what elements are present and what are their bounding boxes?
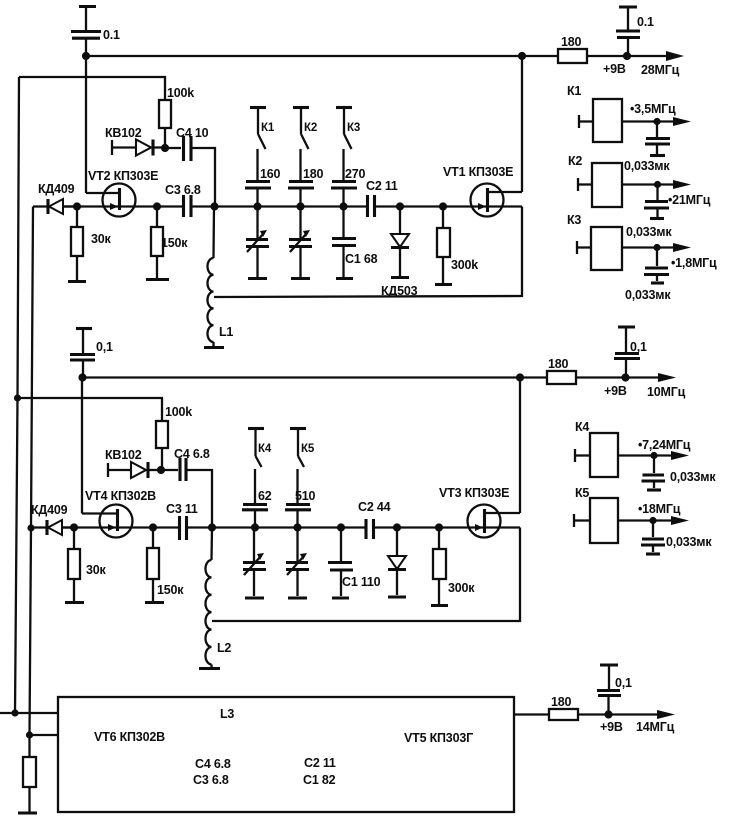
capacitor 0.1 (rail2) [614, 354, 640, 378]
node 30k top (osc2) [70, 523, 78, 531]
svg-text:К5: К5 [301, 443, 315, 455]
svg-text:150к: 150к [157, 583, 184, 597]
svg-text:•18МГц: •18МГц [638, 502, 681, 516]
svg-text:150к: 150к [161, 236, 188, 250]
relay block K4 [575, 433, 683, 477]
svg-text:•21МГц: •21МГц [668, 193, 711, 207]
node tank col2 (osc2) [293, 523, 301, 531]
ground under trimmer 2 [291, 277, 310, 280]
ground under diode (osc2) [388, 595, 406, 598]
node rail2 decoupling [621, 373, 629, 381]
trimmer capacitor 2 (osc1) [289, 207, 312, 278]
svg-text:L1: L1 [219, 325, 233, 339]
node KD503 top [396, 202, 404, 210]
svg-text:10МГц: 10МГц [647, 385, 686, 399]
node 300k top [439, 202, 447, 210]
wire box output [514, 713, 549, 715]
arrow K4 output [671, 451, 689, 460]
capacitor 0.1 (rail1) [616, 31, 640, 56]
inductor L2 [206, 560, 212, 664]
capacitor C4 10 (osc1) [165, 136, 215, 207]
resistor R 100k (osc1) [159, 100, 171, 148]
svg-text:0,033мк: 0,033мк [624, 159, 670, 173]
ground under K3 cap [651, 281, 664, 284]
svg-text:•3,5МГц: •3,5МГц [630, 102, 676, 116]
svg-text:КД409: КД409 [38, 182, 75, 196]
svg-text:0,033мк: 0,033мк [670, 470, 716, 484]
diode KD409 (osc1) [33, 199, 77, 214]
resistor R 30k (osc1) [71, 207, 83, 281]
box U3 outline [58, 697, 514, 812]
resistor R 100k (osc2) [156, 421, 168, 470]
wire bus A (gate-bias feed, left vertical) [15, 77, 19, 713]
svg-text:0,1: 0,1 [96, 340, 113, 354]
capacitor 160 (osc1) [245, 182, 271, 207]
svg-text:L3: L3 [220, 707, 234, 721]
ground under trimmer 1 (osc2) [245, 596, 264, 599]
svg-text:К2: К2 [304, 122, 317, 134]
svg-text:С4 6.8: С4 6.8 [174, 447, 210, 461]
wire L1 tap to VT1 source [214, 207, 522, 298]
capacitor 62 (osc2) [242, 505, 268, 528]
node A-bottom junction [11, 709, 18, 716]
trimmer capacitor 2 (osc2) [286, 528, 309, 597]
trimmer capacitor 1 (osc2) [243, 528, 266, 597]
node 100k/KB102/C4 [161, 144, 169, 152]
svg-text:С2 44: С2 44 [358, 500, 391, 514]
capacitor C2 44 (osc2) [366, 519, 520, 539]
wire L2 tap to VT3 source [212, 528, 520, 622]
svg-text:0,1: 0,1 [615, 676, 632, 690]
ground bar above C-dec2 [76, 329, 92, 354]
svg-text:VT2 КП303Е: VT2 КП303Е [88, 169, 158, 183]
transistor VT3 KP303E [468, 378, 521, 538]
capacitor 270 (osc1) [331, 182, 357, 207]
svg-text:160: 160 [260, 167, 281, 181]
node B-osc2 junction [27, 524, 34, 531]
svg-text:28МГц: 28МГц [641, 63, 680, 77]
wire feed1 horizontal [19, 77, 165, 100]
svg-text:100k: 100k [165, 405, 192, 419]
svg-text:К4: К4 [575, 420, 589, 434]
node K2 output [654, 181, 661, 188]
ground under 300k [435, 283, 452, 286]
svg-text:С3 6.8: С3 6.8 [165, 183, 201, 197]
relay block K1 [579, 99, 685, 142]
relay block K2 [578, 163, 685, 207]
node K3 output [653, 244, 660, 251]
node C3/C4 junction [210, 202, 218, 210]
svg-text:180: 180 [548, 357, 569, 371]
node rail1 VT1 drain [518, 52, 526, 60]
node diode top (osc2) [393, 523, 401, 531]
node 100k/KB102/C4 (osc2) [157, 466, 165, 474]
svg-text:С4 6.8: С4 6.8 [195, 757, 231, 771]
svg-text:С4 10: С4 10 [176, 126, 209, 140]
svg-text:0,1: 0,1 [630, 340, 647, 354]
ground under K2 cap [650, 217, 664, 220]
diode KD503 (osc1) [391, 207, 409, 277]
node rail2 left [78, 373, 86, 381]
node rail1 left [82, 52, 90, 60]
ground bar above C-dec2r [618, 327, 635, 352]
svg-text:К5: К5 [575, 486, 589, 500]
svg-text:62: 62 [258, 489, 272, 503]
node tank col1 (osc2) [251, 523, 259, 531]
svg-text:С2 11: С2 11 [366, 179, 398, 193]
svg-text:30к: 30к [91, 232, 112, 246]
transistor VT4 KP302V [82, 378, 133, 538]
svg-text:VT1 КП303Е: VT1 КП303Е [443, 165, 513, 179]
diode KD409 (osc2) [31, 520, 74, 535]
wire L1 top lead [212, 207, 215, 259]
svg-text:С1 68: С1 68 [345, 252, 378, 266]
node 150k top [153, 202, 161, 210]
capacitor C1 68 (osc1) [332, 207, 356, 278]
relay block K5 [574, 498, 683, 543]
resistor R 180 (rail3) [549, 709, 669, 720]
svg-text:С1 110: С1 110 [342, 575, 381, 589]
svg-text:VT4 КП302В: VT4 КП302В [85, 489, 156, 503]
switch K4 contact (osc2) [248, 429, 264, 504]
capacitor 0.033 (K1) [645, 122, 670, 155]
capacitor C1 110 (osc2) [328, 528, 353, 597]
resistor R 180 (rail2) [547, 371, 670, 384]
resistor R 300k (osc2) [433, 528, 446, 605]
svg-text:100k: 100k [167, 86, 194, 100]
node 30k top [73, 202, 81, 210]
svg-text:КВ102: КВ102 [105, 448, 142, 462]
svg-text:L2: L2 [217, 641, 231, 655]
capacitor C4 6.8 (osc2) [161, 458, 212, 528]
svg-text:270: 270 [345, 167, 366, 181]
svg-text:С3 11: С3 11 [166, 502, 198, 516]
svg-text:КД503: КД503 [381, 284, 418, 298]
node K1 output [653, 118, 660, 125]
capacitor C-dec1 0.1 [71, 32, 101, 57]
resistor R 30k (osc2) [68, 528, 80, 602]
svg-text:К1: К1 [261, 122, 275, 134]
ground bar above C-dec1r [619, 7, 637, 30]
node B-bottom junction [26, 731, 33, 738]
wire B to box pin at y=735 [30, 734, 59, 736]
arrow rail2 output [658, 373, 676, 382]
node A-feed2 junction [14, 394, 21, 401]
node C3/C4 junction (osc2) [208, 523, 216, 531]
svg-text:К3: К3 [567, 213, 581, 227]
capacitor C2 11 (osc1) [368, 195, 523, 217]
node tank col3 (osc2) [337, 523, 345, 531]
node rail1 decoupling [623, 52, 631, 60]
arrow rail3 output [657, 710, 675, 719]
svg-text:0,033мк: 0,033мк [625, 288, 671, 302]
varicap KB102 (osc1) [112, 140, 165, 156]
arrow K5 output [671, 516, 689, 525]
node K4 output [650, 452, 657, 459]
ground bar above C-dec3 [600, 665, 618, 689]
svg-text:К3: К3 [347, 122, 360, 134]
ground bar above C-dec1 [79, 7, 96, 31]
resistor R-bias (unlabelled, bottom left) [23, 757, 36, 812]
transistor VT2 KP303E [86, 56, 136, 217]
wire L1 bottom lead [212, 342, 214, 346]
wire rail2 +9V [83, 376, 548, 378]
ground under L2 [199, 667, 220, 670]
capacitor C3 11 (osc2) [180, 516, 366, 540]
svg-text:0.1: 0.1 [637, 15, 654, 29]
wire rail1 +9V [86, 55, 522, 57]
svg-text:•1,8МГц: •1,8МГц [671, 256, 717, 270]
capacitor 0.033 (K3) [644, 248, 669, 282]
svg-text:180: 180 [551, 695, 572, 709]
wire main2 left segment [62, 526, 179, 528]
svg-text:180: 180 [561, 35, 582, 49]
ground under C1 [336, 277, 353, 280]
transistor VT1 KP303E [471, 56, 523, 217]
svg-text:30к: 30к [86, 563, 107, 577]
node rail3 decoupling [604, 710, 612, 718]
svg-text:КВ102: КВ102 [105, 126, 142, 140]
capacitor 180 (osc1) [288, 182, 314, 207]
resistor R 300k (osc1) [437, 207, 450, 284]
svg-text:С1 82: С1 82 [303, 773, 336, 787]
node 300k top (osc2) [435, 523, 443, 531]
svg-text:+9В: +9В [600, 720, 623, 734]
wire feed2 horizontal [18, 398, 163, 421]
svg-text:КД409: КД409 [31, 503, 68, 517]
ground under 150k (osc2) [145, 601, 164, 604]
node tank col2 [296, 202, 304, 210]
ground under K5 cap [646, 552, 660, 555]
switch K3 contact (osc1) [336, 108, 352, 181]
ground under trimmer 2 (osc2) [288, 596, 307, 599]
svg-text:VT5 КП303Г: VT5 КП303Г [404, 731, 473, 745]
switch K2 contact (osc1) [293, 108, 309, 181]
node K5 output [649, 517, 656, 524]
capacitor C3 6.8 (osc1) [184, 195, 367, 217]
svg-text:0.1: 0.1 [103, 28, 120, 42]
ground under R-bias [18, 811, 37, 814]
ground under 30k (osc2) [65, 601, 84, 604]
relay block K3 [577, 227, 685, 270]
svg-text:С2 11: С2 11 [304, 756, 336, 770]
ground under 150k [146, 278, 169, 281]
node tank col1 [253, 202, 261, 210]
inductor L1 [207, 258, 213, 342]
wire off-page stub to box pin at y=713 [0, 712, 58, 714]
diode KD503 (osc2) [388, 528, 406, 596]
svg-text:VT3 КП303Е: VT3 КП303Е [439, 486, 509, 500]
arrow K2 output [673, 180, 691, 189]
node tank col3 [339, 202, 347, 210]
arrow K1 output [673, 117, 691, 126]
ground under 300k (osc2) [431, 604, 448, 607]
ground under K1 cap [650, 154, 665, 157]
svg-text:К1: К1 [567, 84, 581, 98]
capacitor 0.1 (rail3) [597, 691, 621, 715]
svg-text:510: 510 [295, 489, 316, 503]
wire L2 top lead [210, 528, 213, 561]
trimmer capacitor 1 (osc1) [246, 207, 269, 278]
resistor R 180 (rail1) [522, 49, 678, 63]
svg-text:300к: 300к [448, 581, 475, 595]
varicap KB102 (osc2) [108, 462, 161, 478]
svg-text:300k: 300k [451, 258, 478, 272]
node rail2 VT3 drain [516, 373, 524, 381]
switch K5 contact (osc2) [290, 429, 306, 504]
ground under KD503 [391, 276, 409, 279]
svg-text:14МГц: 14МГц [636, 720, 675, 734]
capacitor C-dec2 0.1 [70, 355, 95, 378]
wire bus B (keying line, second left vertical) [30, 207, 34, 758]
wire main1 left segment [63, 205, 182, 207]
resistor R 150k (osc1) [151, 207, 163, 279]
ground under 30k [68, 280, 86, 283]
capacitor 0.033 (K4) [642, 456, 666, 489]
arrow K3 output [673, 243, 691, 252]
resistor R 150k (osc2) [147, 528, 159, 602]
svg-text:К4: К4 [258, 443, 272, 455]
svg-text:К2: К2 [568, 154, 582, 168]
capacitor 0.033 (K2) [644, 185, 669, 218]
capacitor 510 (osc2) [285, 505, 311, 528]
svg-text:+9В: +9В [604, 384, 627, 398]
svg-text:VT6 КП302В: VT6 КП302В [94, 730, 165, 744]
wire L2 bottom lead [210, 664, 212, 667]
ground under trimmer 1 [248, 277, 267, 280]
switch K1 contact (osc1) [250, 108, 266, 181]
svg-text:180: 180 [303, 167, 324, 181]
svg-text:+9В: +9В [603, 62, 626, 76]
svg-text:0,033мк: 0,033мк [626, 225, 672, 239]
ground under C1 (osc2) [332, 596, 349, 599]
svg-text:•7,24МГц: •7,24МГц [638, 438, 691, 452]
svg-text:0,033мк: 0,033мк [666, 535, 712, 549]
ground under L1 [204, 346, 224, 349]
capacitor 0.033 (K5) [641, 521, 665, 553]
arrow rail1 output [666, 51, 684, 61]
ground under K4 cap [647, 488, 661, 491]
svg-text:С3 6.8: С3 6.8 [193, 773, 229, 787]
node 150k top (osc2) [149, 523, 157, 531]
